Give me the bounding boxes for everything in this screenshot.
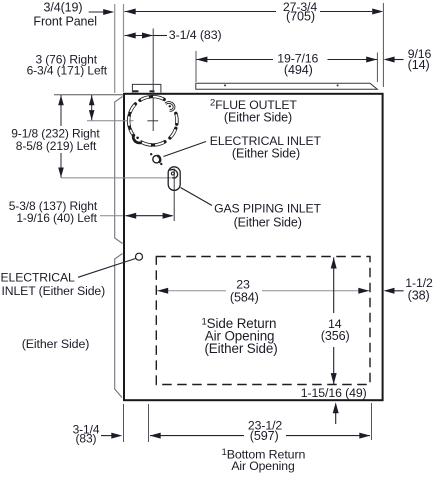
svg-text:Front Panel: Front Panel xyxy=(33,14,97,28)
svg-text:(14): (14) xyxy=(408,58,430,72)
svg-text:(597): (597) xyxy=(250,429,279,443)
svg-text:6-3/4 (171) Left: 6-3/4 (171) Left xyxy=(27,64,108,78)
svg-text:(356): (356) xyxy=(321,329,350,343)
svg-text:INLET (Either Side): INLET (Either Side) xyxy=(2,284,106,298)
svg-text:(38): (38) xyxy=(408,288,430,302)
svg-text:8-5/8 (219) Left: 8-5/8 (219) Left xyxy=(16,139,97,153)
svg-text:1-9/16 (40) Left: 1-9/16 (40) Left xyxy=(16,211,97,225)
svg-text:1-15/16 (49): 1-15/16 (49) xyxy=(301,386,367,400)
svg-text:(494): (494) xyxy=(284,63,313,77)
svg-text:(Either Side): (Either Side) xyxy=(224,111,292,125)
svg-text:3-1/4 (83): 3-1/4 (83) xyxy=(169,28,222,42)
svg-text:(Either Side): (Either Side) xyxy=(234,215,302,229)
svg-text:(Either Side): (Either Side) xyxy=(232,146,300,160)
svg-text:GAS PIPING INLET: GAS PIPING INLET xyxy=(214,202,321,216)
svg-text:(Either Side): (Either Side) xyxy=(22,337,90,351)
svg-text:ELECTRICAL: ELECTRICAL xyxy=(1,270,76,284)
svg-text:(83): (83) xyxy=(76,431,97,445)
svg-text:Air Opening: Air Opening xyxy=(231,459,294,473)
svg-text:(Either Side): (Either Side) xyxy=(204,341,277,356)
svg-text:(705): (705) xyxy=(286,10,315,24)
svg-text:3/4(19): 3/4(19) xyxy=(44,1,83,15)
svg-text:(584): (584) xyxy=(230,290,259,304)
